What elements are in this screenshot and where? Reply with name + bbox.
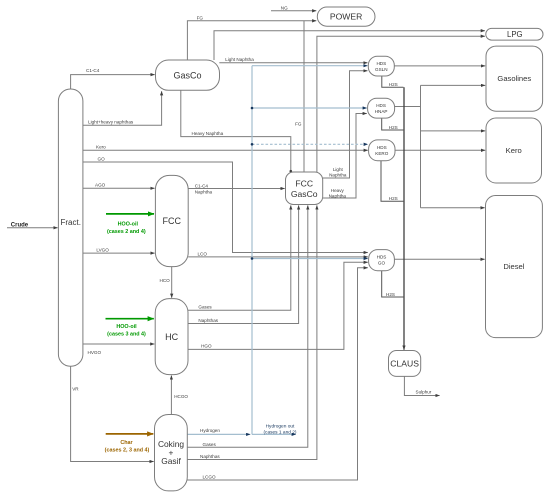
unit FCC bbox=[155, 175, 188, 266]
svg-text:(cases 1 and 2): (cases 1 and 2) bbox=[263, 429, 296, 435]
label Light Naphtha GasCo bbox=[225, 57, 254, 62]
wire Sulphur from CLAUS bbox=[404, 376, 439, 395]
wire bus to Kero bbox=[421, 130, 486, 132]
svg-text:Naphtha: Naphtha bbox=[329, 193, 347, 198]
svg-text:Diesel: Diesel bbox=[503, 262, 524, 271]
svg-text:HDS: HDS bbox=[377, 255, 387, 260]
svg-text:HDS: HDS bbox=[377, 145, 387, 150]
svg-text:(cases 2, 3 and 4): (cases 2, 3 and 4) bbox=[105, 447, 150, 453]
label HCO stream bbox=[160, 278, 171, 283]
wire Light+heavy naphthas Fract to GasCo bottom bbox=[83, 91, 162, 125]
wire NG feed to POWER bbox=[271, 10, 316, 12]
junction dot hydrogen KERO bbox=[251, 143, 254, 146]
arrow HOO-oil into HC bbox=[106, 318, 154, 320]
wire H2S bus to CLAUS bbox=[403, 87, 405, 350]
svg-text:Naphtha: Naphtha bbox=[195, 190, 213, 195]
wire distribution bus vertical bbox=[420, 85, 422, 207]
label GO stream bbox=[98, 156, 106, 161]
svg-text:Naphthas: Naphthas bbox=[198, 318, 218, 323]
svg-text:HDS: HDS bbox=[376, 103, 386, 108]
label Light Naphtha FCC GasCo line1 bbox=[333, 167, 344, 172]
wire Heavy Naphtha GasCo to FCC GasCo top bbox=[181, 90, 291, 170]
svg-text:C1-C4: C1-C4 bbox=[195, 183, 209, 188]
svg-text:Gasif: Gasif bbox=[161, 456, 181, 466]
label Heavy Naphtha GasCo bbox=[192, 131, 224, 136]
label Crude feed bbox=[11, 222, 29, 228]
wire HVGO Fract to HC bbox=[83, 343, 154, 345]
wire Gases Coking to FCC GasCo bottom bbox=[187, 205, 307, 447]
wire FG header GasCo to POWER bbox=[187, 21, 316, 60]
wire bus to Gasolines bbox=[421, 84, 486, 86]
svg-text:Crude: Crude bbox=[11, 222, 29, 228]
svg-text:H2S: H2S bbox=[386, 292, 395, 297]
wire hydrogen to HDS HNAP bbox=[252, 107, 367, 109]
svg-text:LPG: LPG bbox=[507, 30, 523, 39]
label HVGO stream bbox=[88, 350, 102, 355]
arrow HOO-oil into FCC bbox=[106, 213, 154, 215]
svg-text:GO: GO bbox=[378, 261, 386, 266]
svg-text:HDS: HDS bbox=[376, 61, 386, 66]
label Sulphur bbox=[416, 390, 432, 395]
svg-text:Gases: Gases bbox=[198, 305, 212, 310]
label cases 3 and 4 bbox=[107, 332, 146, 338]
svg-text:NG: NG bbox=[281, 5, 288, 10]
arrow Char into Coking bbox=[106, 433, 154, 435]
wire Heavy Naphtha FCC GasCo to HDS HNAP bbox=[323, 114, 367, 199]
wire LVGO Fract to FCC bbox=[83, 252, 155, 254]
wire Naphthas HC to FCC GasCo bottom bbox=[188, 205, 299, 323]
wire hydrogen to HDS GSLN bbox=[252, 65, 368, 67]
svg-text:FCC: FCC bbox=[163, 216, 182, 226]
svg-text:Hydrogen out: Hydrogen out bbox=[266, 424, 295, 430]
wire FG from FCC GasCo top to FG header bbox=[303, 21, 305, 172]
wire HCO FCC to HC bbox=[171, 267, 173, 298]
label H2S HNAP bbox=[389, 125, 398, 130]
svg-text:Naphthas: Naphthas bbox=[200, 454, 220, 459]
svg-text:HVGO: HVGO bbox=[88, 350, 102, 355]
label LCO stream bbox=[198, 251, 208, 256]
svg-text:GasCo: GasCo bbox=[291, 189, 318, 199]
wire HDS HNAP out to distribution bus bbox=[395, 106, 421, 108]
svg-text:Heavy Naphtha: Heavy Naphtha bbox=[192, 131, 224, 136]
svg-text:Gases: Gases bbox=[203, 442, 217, 447]
svg-text:Char: Char bbox=[120, 440, 133, 446]
svg-text:CLAUS: CLAUS bbox=[390, 358, 419, 368]
wire LCGO Coking to HDS GO bbox=[187, 268, 367, 480]
label LCGO stream bbox=[203, 475, 216, 480]
label cases 2 and 4 bbox=[107, 229, 146, 235]
svg-text:C1-C4: C1-C4 bbox=[86, 68, 100, 73]
svg-text:Heavy: Heavy bbox=[331, 188, 345, 193]
svg-text:Naphtha: Naphtha bbox=[329, 172, 347, 177]
product LPG bbox=[486, 28, 543, 40]
unit Coking plus Gasif bbox=[155, 415, 188, 491]
label Gases HC out bbox=[198, 305, 212, 310]
svg-text:Light: Light bbox=[333, 167, 344, 172]
label FG at FCC GasCo riser bbox=[295, 121, 302, 126]
wire hydrogen bus vertical bbox=[251, 66, 253, 435]
junction dot heavy naphtha at FCC GasCo bbox=[290, 170, 293, 173]
svg-text:HOO-oil: HOO-oil bbox=[118, 221, 139, 227]
label Hydrogen out line2 bbox=[263, 429, 296, 435]
label Gases Coking out bbox=[203, 442, 217, 447]
svg-text:H2S: H2S bbox=[389, 82, 398, 87]
svg-text:HC: HC bbox=[165, 332, 178, 342]
label cases 2 3 and 4 bbox=[105, 447, 150, 453]
label Naphtha FCC out bbox=[195, 190, 213, 195]
unit HDS GSLN bbox=[368, 56, 394, 76]
wire Light Naphtha FCC GasCo to HDS GSLN bbox=[323, 71, 368, 178]
wire HDS GSLN out to Gasolines bbox=[394, 65, 485, 67]
unit GasCo bbox=[156, 60, 220, 90]
svg-text:GSLN: GSLN bbox=[375, 67, 388, 72]
wire GO Fract to HDS GO bbox=[83, 162, 368, 253]
svg-text:LCGO: LCGO bbox=[203, 475, 216, 480]
label Naphthas HC out bbox=[198, 318, 218, 323]
unit FCC GasCo bbox=[286, 172, 323, 205]
svg-text:Gasolines: Gasolines bbox=[497, 74, 531, 83]
label H2S GSLN bbox=[389, 82, 398, 87]
svg-text:FCC: FCC bbox=[295, 178, 313, 188]
label HOO-oil HC bbox=[116, 324, 137, 330]
svg-text:HCO: HCO bbox=[160, 278, 171, 283]
svg-text:LVGO: LVGO bbox=[96, 248, 109, 253]
label FG bbox=[197, 15, 204, 20]
wire Light Naphtha GasCo to HDS GSLN bbox=[219, 62, 367, 64]
svg-text:H2S: H2S bbox=[389, 125, 398, 130]
label Char bbox=[120, 440, 133, 446]
wire C1-C4 Naphtha FCC to FCC GasCo bbox=[188, 188, 285, 190]
svg-text:Sulphur: Sulphur bbox=[416, 390, 432, 395]
svg-text:HOO-oil: HOO-oil bbox=[116, 324, 137, 330]
junction dot hydrogen HNAP bbox=[251, 107, 254, 110]
label H2S GO bbox=[386, 292, 395, 297]
label C1-C4 FCC out bbox=[195, 183, 209, 188]
svg-text:Kero: Kero bbox=[506, 146, 522, 155]
junction dot hydrogen GO bbox=[251, 257, 254, 260]
label HOO-oil FCC bbox=[118, 221, 139, 227]
label Light+heavy naphthas bbox=[88, 120, 134, 125]
label Hydrogen Coking out bbox=[200, 428, 220, 433]
product Diesel bbox=[486, 196, 543, 338]
svg-text:VR: VR bbox=[72, 386, 79, 391]
wire C1-C4 from Fract top to GasCo bbox=[71, 75, 155, 89]
svg-text:(cases 3 and 4): (cases 3 and 4) bbox=[107, 332, 146, 338]
svg-text:HGO: HGO bbox=[201, 344, 212, 349]
svg-text:LCO: LCO bbox=[198, 251, 208, 256]
unit HDS HNAP bbox=[368, 98, 395, 118]
svg-text:Light Naphtha: Light Naphtha bbox=[225, 57, 254, 62]
wire Hydrogen out external bbox=[252, 433, 296, 435]
wire H2S from HDS GSLN bbox=[382, 76, 404, 87]
label AGO stream bbox=[95, 183, 106, 188]
wire Gases HC to FCC GasCo bottom bbox=[188, 205, 291, 310]
svg-text:AGO: AGO bbox=[95, 183, 106, 188]
svg-text:Kero: Kero bbox=[96, 145, 106, 150]
label Light Naphtha FCC GasCo line2 bbox=[329, 172, 347, 177]
wire HCGO Coking to HC bottom bbox=[170, 376, 172, 415]
wire HDS GO out to Diesel bbox=[394, 258, 484, 260]
unit HC bbox=[155, 299, 188, 375]
svg-text:KERO: KERO bbox=[375, 151, 388, 156]
label Naphthas Coking out bbox=[200, 454, 220, 459]
wire AGO Fract to FCC bbox=[83, 187, 155, 189]
wire HDS KERO out to Kero bbox=[395, 149, 485, 151]
wire H2S from HDS GO bbox=[382, 271, 404, 297]
wire bus to Diesel bbox=[421, 207, 485, 209]
wire VR Fract bottom to Coking bbox=[71, 366, 154, 461]
label VR stream bbox=[72, 386, 79, 391]
svg-text:Light+heavy naphthas: Light+heavy naphthas bbox=[88, 120, 134, 125]
product Gasolines bbox=[486, 46, 543, 111]
wire hydrogen dashed to HDS KERO bbox=[252, 143, 368, 145]
svg-text:GO: GO bbox=[98, 156, 106, 161]
label LVGO stream bbox=[96, 248, 109, 253]
wire H2S from HDS KERO bbox=[381, 161, 403, 202]
wire hydrogen to HDS GO bbox=[252, 258, 368, 260]
svg-text:Fract.: Fract. bbox=[60, 218, 80, 227]
svg-text:HCGO: HCGO bbox=[174, 394, 188, 399]
wire Crude feed to Fract bbox=[7, 227, 58, 229]
svg-text:FG: FG bbox=[197, 15, 204, 20]
svg-text:GasCo: GasCo bbox=[173, 70, 201, 80]
svg-text:(cases 2 and 4): (cases 2 and 4) bbox=[107, 229, 146, 235]
unit CLAUS bbox=[389, 351, 421, 377]
svg-text:HNAP: HNAP bbox=[375, 109, 388, 114]
label Kero stream bbox=[96, 145, 106, 150]
wire LPG from FCC GasCo top to LPG box bbox=[317, 36, 485, 172]
wire LPG from GasCo top to LPG box bbox=[214, 31, 485, 60]
label HGO stream bbox=[201, 344, 212, 349]
wire Kero Fract to HDS KERO bbox=[83, 149, 368, 151]
wire HGO HC to HDS GO bbox=[188, 262, 368, 349]
label Hydrogen out line1 bbox=[266, 424, 295, 430]
label NG bbox=[281, 5, 288, 10]
unit Fract bbox=[58, 89, 83, 366]
svg-text:FG: FG bbox=[295, 121, 302, 126]
label Heavy Naphtha FCC GasCo line1 bbox=[331, 188, 345, 193]
unit POWER bbox=[317, 7, 375, 26]
label HCGO stream bbox=[174, 394, 188, 399]
svg-text:POWER: POWER bbox=[330, 12, 362, 22]
label C1-C4 Fract bbox=[86, 68, 100, 73]
label H2S KERO bbox=[389, 196, 398, 201]
unit HDS KERO bbox=[369, 140, 395, 161]
wire Naphthas Coking to FCC GasCo bottom bbox=[187, 205, 317, 459]
product Kero bbox=[486, 118, 542, 183]
wire Hydrogen from Coking to bus bbox=[187, 433, 250, 435]
label Heavy Naphtha FCC GasCo line2 bbox=[329, 193, 347, 198]
wire H2S from HDS HNAP bbox=[382, 118, 404, 130]
svg-text:H2S: H2S bbox=[389, 196, 398, 201]
wire LCO FCC to HDS GO bbox=[188, 256, 368, 258]
unit HDS GO bbox=[369, 250, 395, 271]
svg-text:Hydrogen: Hydrogen bbox=[200, 428, 220, 433]
